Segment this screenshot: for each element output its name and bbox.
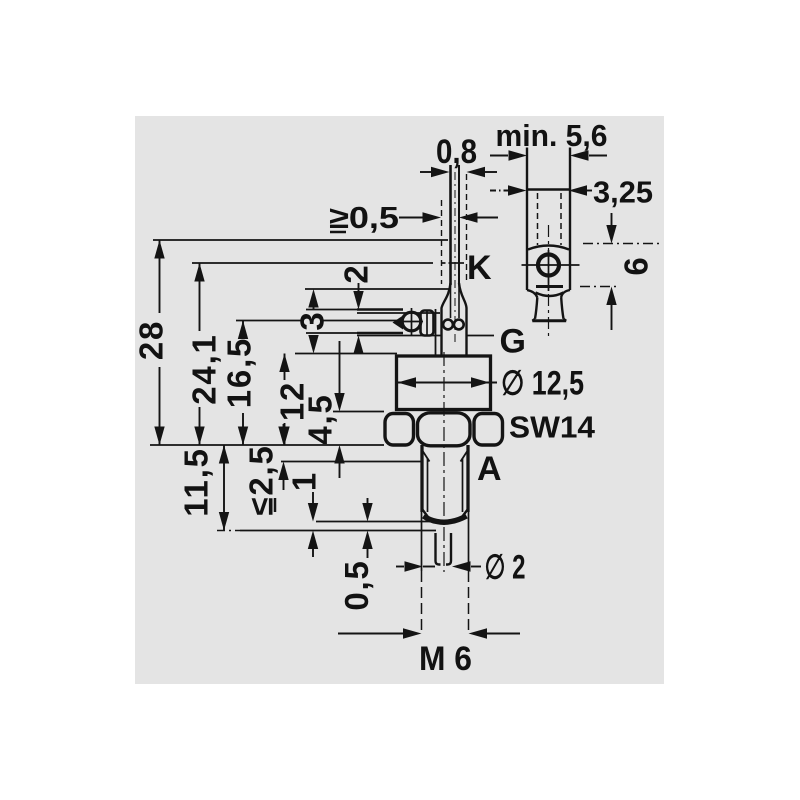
anode pin (436, 533, 452, 565)
svg-text:28: 28 (133, 320, 170, 360)
svg-text:24,1: 24,1 (186, 333, 223, 404)
hex nut SW14 (385, 414, 414, 446)
centerline of device (443, 352, 445, 572)
svg-text:M 6: M 6 (419, 640, 472, 678)
tip plane lines (316, 521, 430, 523)
svg-text:∅ 2: ∅ 2 (485, 549, 526, 587)
svg-text:16,5: 16,5 (221, 337, 258, 408)
dim dia 2 (396, 566, 404, 568)
dim 12 (295, 353, 397, 355)
solder lug: hole (538, 255, 559, 276)
gate crimp (421, 311, 434, 336)
svg-text:∅ 12,5: ∅ 12,5 (501, 365, 584, 403)
dim 11,5 (223, 445, 225, 531)
svg-text:4,5: 4,5 (302, 393, 339, 444)
solder lug: tube (526, 148, 528, 291)
svg-text:1: 1 (286, 471, 323, 491)
wire centerline (454, 172, 456, 345)
label G (467, 335, 494, 337)
svg-text:K: K (467, 249, 492, 287)
bead circles (450, 285, 452, 318)
solder lug: bottom arc, waist and feet (527, 290, 570, 298)
svg-text:A: A (477, 450, 502, 488)
svg-text:SW14: SW14 (509, 410, 596, 445)
dim dia 12,5 (398, 382, 498, 384)
glass bead flare (442, 283, 467, 355)
svg-text:G: G (500, 323, 526, 361)
datum line (nut bottom) (150, 444, 384, 446)
gate lead G (306, 309, 360, 311)
gate eyelet (402, 312, 421, 331)
dim 6 (583, 243, 659, 245)
svg-text:0,5: 0,5 (338, 559, 375, 610)
dim 4,5 (333, 411, 384, 413)
svg-text:3: 3 (294, 310, 331, 330)
svg-text:3,25: 3,25 (593, 175, 653, 210)
dim 24,1 (192, 262, 433, 264)
svg-text:≥0,5: ≥0,5 (329, 200, 399, 235)
solder lug: fold line (536, 285, 563, 288)
gate post (435, 309, 437, 355)
dim M6 (421, 512, 423, 571)
glass bead extension dashed left (441, 200, 443, 284)
stud chamfer tip (422, 509, 468, 517)
svg-text:11,5: 11,5 (178, 447, 215, 517)
dim 3,25 (490, 190, 508, 192)
dim 1 (286, 471, 323, 491)
cathode wire K (449, 165, 452, 285)
dim 28 (153, 239, 448, 241)
dim 3 (305, 288, 449, 290)
svg-text:2: 2 (338, 263, 375, 283)
dim 2 (358, 283, 360, 291)
glass bead extension dashed right (466, 174, 468, 284)
dim 16,5 (236, 320, 303, 322)
body cylinder (397, 356, 491, 410)
dim 0,5 bottom (367, 498, 369, 503)
svg-text:min. 5,6: min. 5,6 (496, 118, 608, 153)
svg-text:0,8: 0,8 (436, 133, 477, 171)
gate wire crimp wedge (393, 316, 404, 330)
dim <=2,5 (281, 461, 423, 463)
svg-text:6: 6 (618, 255, 655, 275)
threaded stud M6 (420, 445, 423, 512)
solder lug: ring dome (528, 246, 569, 250)
